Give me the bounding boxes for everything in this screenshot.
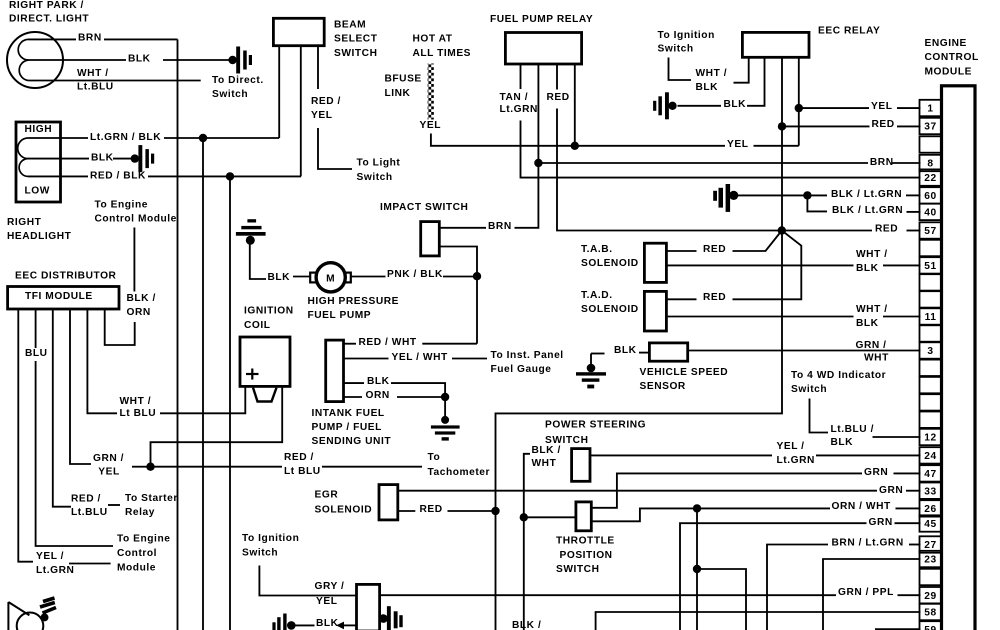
label THROTTLE POSITION SWITCH <box>556 535 615 575</box>
svg-text:SENSOR: SENSOR <box>640 381 686 392</box>
svg-text:FUEL PUMP RELAY: FUEL PUMP RELAY <box>490 14 593 25</box>
box TAD solenoid <box>644 291 666 331</box>
ground (chassis) right of ignition box <box>379 606 403 630</box>
wire ground to BLK label <box>591 353 605 355</box>
label FUEL PUMP RELAY <box>490 14 593 25</box>
wire TP upper to GRN pin47 <box>591 473 862 507</box>
wire to BLK/Lt.GRN label <box>807 194 827 196</box>
svg-text:BRN: BRN <box>870 157 894 168</box>
label BLK (sending unit) <box>367 376 390 387</box>
wire vertical bus from Lt.GRN/BLK dot <box>202 138 204 630</box>
svg-text:LOW: LOW <box>25 185 50 196</box>
svg-text:Module: Module <box>117 562 156 573</box>
wire TAD lower WHT/BLK to pin11 <box>666 316 853 318</box>
label YEL (mid) <box>727 139 748 150</box>
wire into pin45 <box>895 522 921 524</box>
wire EGR lower RED <box>398 510 416 512</box>
svg-text:57: 57 <box>924 226 936 237</box>
wire EEC relay pin3 long route <box>496 57 783 630</box>
ground (earth) intank <box>431 416 460 441</box>
svg-text:60: 60 <box>924 191 936 202</box>
wire from To Engine Control Module label down <box>133 228 135 292</box>
label RED / WHT <box>359 337 417 348</box>
wire TAB lower WHT/BLK to pin51 <box>666 264 853 266</box>
label To Light Switch <box>357 157 401 182</box>
label RED / Lt BLU (tach) <box>284 452 321 477</box>
svg-text:ENGINE: ENGINE <box>925 38 967 49</box>
plus symbol ignition coil <box>246 369 259 380</box>
svg-text:To Ignition: To Ignition <box>658 30 715 41</box>
horn symbol (bottom left) <box>8 598 56 630</box>
wire ORN to junction <box>397 396 445 398</box>
junction dot Lt.GRN/BLK <box>199 134 207 142</box>
label IGNITION COIL <box>244 306 294 331</box>
wire from ignition switch label <box>669 58 692 81</box>
svg-text:COIL: COIL <box>244 320 271 331</box>
svg-text:26: 26 <box>924 504 936 515</box>
label To Inst. Panel Fuel Gauge <box>491 350 564 375</box>
svg-text:TFI MODULE: TFI MODULE <box>25 291 93 302</box>
svg-text:RED: RED <box>703 244 726 255</box>
svg-text:CONTROL: CONTROL <box>925 52 979 63</box>
wire YEL to EEC relay <box>754 145 799 147</box>
svg-text:GRN /: GRN / <box>856 340 887 351</box>
ground (inverted earth) fuel pump BLK <box>236 219 266 279</box>
label RED (pin37) <box>872 119 895 130</box>
junction dot PNK/BLK <box>473 272 481 280</box>
wire TAB RED <box>666 250 696 252</box>
wire EGR upper to ECM pin33 <box>398 490 877 492</box>
svg-text:GRN /: GRN / <box>93 453 124 464</box>
svg-text:PUMP / FUEL: PUMP / FUEL <box>312 422 382 433</box>
svg-text:POWER STEERING: POWER STEERING <box>545 419 646 430</box>
label TFI MODULE <box>25 291 93 302</box>
junction dot pin57 node <box>778 226 786 234</box>
svg-text:WHT /: WHT / <box>120 396 152 407</box>
svg-text:To: To <box>428 452 441 463</box>
svg-text:IMPACT SWITCH: IMPACT SWITCH <box>380 202 468 213</box>
wire RED riser diagonal to node <box>733 231 802 300</box>
wire YEL/WHT <box>344 358 389 360</box>
box power steering switch <box>572 449 590 482</box>
svg-text:GRN: GRN <box>879 485 903 496</box>
svg-text:THROTTLE: THROTTLE <box>556 535 615 546</box>
svg-text:To Direct.: To Direct. <box>212 75 264 86</box>
svg-text:RED /: RED / <box>284 452 314 463</box>
svg-text:To 4 WD Indicator: To 4 WD Indicator <box>791 370 886 381</box>
wire label-link to Module <box>69 563 111 565</box>
ground (earth) VSS <box>576 354 606 389</box>
wire BRN into pin8 <box>892 162 921 164</box>
label BLK (EEC) <box>724 99 747 110</box>
label RED / YEL <box>311 96 341 121</box>
svg-text:BLK /: BLK / <box>532 445 561 456</box>
svg-text:To Starter: To Starter <box>125 493 178 504</box>
wire beam select pin1 to Lt.GRN/BLK <box>278 46 280 138</box>
label YEL / Lt.GRN (pin24) <box>777 441 815 466</box>
label BFUSE LINK <box>385 73 422 99</box>
wire RED/WHT <box>344 343 357 345</box>
svg-text:WHT: WHT <box>532 458 557 469</box>
label BLK (VSS) <box>614 345 637 356</box>
svg-text:RED: RED <box>872 119 895 130</box>
label GRN / YEL <box>93 453 124 478</box>
wire vertical bus from RED/BLK dot <box>229 176 231 630</box>
svg-text:HIGH: HIGH <box>25 124 53 135</box>
svg-text:INTANK FUEL: INTANK FUEL <box>312 408 385 419</box>
svg-text:RED /: RED / <box>71 494 101 505</box>
label BRN (pin8) <box>870 157 894 168</box>
svg-text:29: 29 <box>924 591 936 602</box>
wire YEL from fusible link <box>431 134 575 146</box>
svg-text:58: 58 <box>924 608 936 619</box>
wire BLK from bulb <box>29 59 127 61</box>
label GRN (pin33) <box>879 485 903 496</box>
label RED (pin57) <box>875 223 898 234</box>
wire BRN/Lt.GRN pin27 <box>767 545 828 630</box>
wire to earth ground <box>444 397 446 419</box>
label BLK (fuel pump) <box>268 272 291 283</box>
svg-text:MODULE: MODULE <box>925 66 972 77</box>
wire YEL/WHT to gauge <box>452 358 487 360</box>
label EGR SOLENOID <box>315 489 373 515</box>
svg-text:YEL: YEL <box>311 110 332 121</box>
svg-text:IGNITION: IGNITION <box>244 306 294 317</box>
wire WHT/BLK to EEC relay pin1 <box>734 57 749 82</box>
label BLK / WHT <box>532 445 561 469</box>
wire into pin29 <box>898 594 921 596</box>
wire BRN to ECM pin8 <box>538 162 868 164</box>
svg-text:BLK: BLK <box>696 82 719 93</box>
svg-text:51: 51 <box>924 261 936 272</box>
svg-text:Lt BLU: Lt BLU <box>120 408 157 419</box>
svg-text:BEAM: BEAM <box>334 19 366 30</box>
wire BLK to ground <box>163 59 229 61</box>
label BLK / Lt.GRN (pin60) <box>831 189 902 200</box>
ground (chassis) EEC relay BLK <box>653 92 677 119</box>
svg-text:45: 45 <box>924 519 936 530</box>
label To 4 WD Indicator Switch <box>791 370 886 395</box>
wire TFI pin2 lower to To Engine <box>36 361 113 546</box>
label BLK / Lt.GRN (pin40) <box>832 205 903 216</box>
svg-text:BRN: BRN <box>488 221 512 232</box>
label RED / BLK <box>90 170 146 181</box>
junction dot pin37 branch <box>778 122 786 130</box>
svg-text:12: 12 <box>924 433 936 444</box>
svg-text:Control Module: Control Module <box>95 213 177 224</box>
junction dot GRN/YEL <box>146 463 154 471</box>
wire WHT/Lt BLU to coil <box>160 386 245 413</box>
svg-text:BLK: BLK <box>614 345 637 356</box>
label To Tachometer <box>428 452 491 478</box>
wire GRN/YEL to junction <box>132 466 148 468</box>
svg-text:Lt.GRN: Lt.GRN <box>500 104 538 115</box>
ground (chassis) pins 60/40 <box>713 184 738 212</box>
wire pin59 stub <box>875 628 921 630</box>
svg-text:BLK / Lt.GRN: BLK / Lt.GRN <box>831 189 902 200</box>
svg-text:YEL: YEL <box>727 139 748 150</box>
wire junction riser to ignition coil <box>151 386 283 466</box>
svg-text:To Light: To Light <box>357 157 401 168</box>
label RED (TAD) <box>703 292 726 303</box>
svg-text:RED: RED <box>875 223 898 234</box>
wire 4WD to Lt.BLU/BLK <box>810 399 829 433</box>
wire to tachometer <box>322 466 422 468</box>
svg-text:BLK: BLK <box>128 53 151 64</box>
label BLK / ORN <box>127 293 156 318</box>
svg-text:ORN / WHT: ORN / WHT <box>832 501 892 512</box>
svg-text:BLK: BLK <box>91 153 114 164</box>
svg-text:HOT AT: HOT AT <box>413 33 453 44</box>
label IMPACT SWITCH <box>380 202 468 213</box>
svg-text:ORN: ORN <box>366 390 390 401</box>
wire TP feed <box>524 516 576 518</box>
junction dot BLK/ORN ground <box>441 393 449 401</box>
wire TFI pin5 WHT/Lt BLU <box>87 309 117 413</box>
label T.A.D. SOLENOID <box>581 290 639 315</box>
label To Starter Relay <box>125 493 178 518</box>
wire Lt.GRN/BLK from headlight <box>61 137 89 139</box>
svg-text:WHT /: WHT / <box>856 304 888 315</box>
label RED (FP relay) <box>547 92 570 103</box>
label: RIGHT PARK / DIRECT. LIGHT <box>9 0 89 24</box>
label HIGH PRESSURE FUEL PUMP <box>308 296 400 321</box>
box EGR solenoid <box>379 485 398 520</box>
svg-text:WHT: WHT <box>864 352 889 363</box>
wire TFI pin3 RED/Lt.BLU <box>53 309 71 507</box>
label GRN / PPL (pin29) <box>838 587 894 598</box>
wire into pin47 <box>894 472 921 474</box>
label POWER STEERING SWITCH <box>545 419 646 445</box>
svg-text:Switch: Switch <box>357 172 393 183</box>
svg-text:RED: RED <box>547 92 570 103</box>
svg-text:YEL: YEL <box>316 596 337 607</box>
svg-text:Lt.GRN: Lt.GRN <box>36 565 74 576</box>
label BLK / (cut) <box>512 620 541 630</box>
svg-text:RED: RED <box>420 504 443 515</box>
label GRY / YEL <box>315 581 345 607</box>
wire pin58 <box>596 612 921 630</box>
wire PNK/BLK from motor <box>351 276 386 278</box>
label BLK <box>128 53 151 64</box>
box fuel pump relay <box>505 33 581 65</box>
wire label-link to starter relay <box>108 504 120 506</box>
svg-text:DIRECT. LIGHT: DIRECT. LIGHT <box>9 13 89 24</box>
svg-text:BLK: BLK <box>367 376 390 387</box>
box ignition coil <box>240 337 290 386</box>
label BRN (impact) <box>488 221 512 232</box>
label ORN <box>366 390 390 401</box>
label BRN / Lt.GRN (pin27) <box>832 538 904 549</box>
svg-text:RED / BLK: RED / BLK <box>90 170 146 181</box>
box impact switch <box>421 222 440 256</box>
label RED (TAB) <box>703 244 726 255</box>
label RED (EGR) <box>420 504 443 515</box>
wire TFI pin1 YEL/Lt.GRN <box>18 309 33 562</box>
wire Lt.GRN/BLK to beam select <box>164 137 279 139</box>
svg-text:YEL: YEL <box>871 101 892 112</box>
wire ground to junction <box>738 194 804 196</box>
wire GRN into pin33 <box>906 490 921 492</box>
wire BLK arrow to box <box>336 622 357 630</box>
motor high pressure fuel pump <box>310 263 351 292</box>
svg-text:T.A.B.: T.A.B. <box>581 244 613 255</box>
svg-text:Control: Control <box>117 548 157 559</box>
fusible link (hatched) <box>428 64 434 120</box>
wire vertical bus from BRN corner <box>177 39 179 630</box>
ground (chassis) headlight BLK <box>131 145 155 172</box>
svg-text:SELECT: SELECT <box>334 33 378 44</box>
wire BRN from bulb <box>51 38 76 40</box>
wire branch down from ORN/WHT <box>696 508 698 630</box>
svg-text:Lt.BLU: Lt.BLU <box>77 82 114 93</box>
ground (chassis) at To Direct Switch <box>228 47 252 74</box>
label WHT / BLK (pin51) <box>856 249 888 274</box>
svg-text:Fuel Gauge: Fuel Gauge <box>491 364 552 375</box>
label INTANK FUEL PUMP / FUEL SENDING UNIT <box>312 408 392 447</box>
wire RED into pin37 <box>897 125 921 127</box>
svg-text:BLU: BLU <box>25 348 48 359</box>
wire BLK to ground <box>113 158 131 160</box>
wire BLK sending unit <box>344 382 365 384</box>
svg-text:LINK: LINK <box>385 88 411 99</box>
svg-text:Lt.GRN: Lt.GRN <box>777 455 815 466</box>
wire EEC relay pin2 <box>747 57 765 106</box>
wire FP relay pin3 lower to pin57 node <box>557 109 782 231</box>
ECM pin boxes column <box>920 100 942 630</box>
svg-text:RED / WHT: RED / WHT <box>359 337 417 348</box>
box beam select switch <box>273 18 324 45</box>
svg-text:YEL /: YEL / <box>36 551 64 562</box>
svg-text:EGR: EGR <box>315 489 339 500</box>
label WHT / Lt BLU <box>120 396 157 419</box>
svg-text:SOLENOID: SOLENOID <box>581 304 639 315</box>
svg-text:BRN / Lt.GRN: BRN / Lt.GRN <box>832 538 904 549</box>
wire BLK to ground riser <box>391 383 445 397</box>
svg-text:TAN /: TAN / <box>500 92 529 103</box>
wire FP relay pin3 upper <box>556 64 558 90</box>
wire BLK/WHT bracket <box>524 454 530 630</box>
svg-text:SOLENOID: SOLENOID <box>315 504 373 515</box>
box engine control module <box>942 86 976 630</box>
svg-text:24: 24 <box>924 451 936 462</box>
label ENGINE CONTROL MODULE <box>925 38 979 77</box>
svg-text:Lt.GRN / BLK: Lt.GRN / BLK <box>90 132 161 143</box>
svg-text:BLK: BLK <box>316 618 339 629</box>
wire FP relay pin1 upper <box>520 64 522 89</box>
label RED / Lt.BLU <box>71 494 108 519</box>
wire GRN pin45 <box>680 523 867 630</box>
svg-text:To Engine: To Engine <box>95 199 148 210</box>
label HIGH <box>25 124 53 135</box>
svg-text:ORN: ORN <box>127 307 151 318</box>
box EEC relay <box>742 32 809 57</box>
svg-text:BFUSE: BFUSE <box>385 73 422 84</box>
wire YEL into pin1 <box>897 107 921 109</box>
wire BLK to VSS box <box>639 352 649 354</box>
svg-text:33: 33 <box>924 486 936 497</box>
wire FP relay pin1 lower to ECM pin22 <box>521 121 921 178</box>
coil tower <box>253 388 277 402</box>
wire BLK to ground <box>678 105 722 107</box>
wire WHT/Lt.BLU from bulb <box>55 80 201 82</box>
label HOT AT ALL TIMES <box>413 33 472 58</box>
svg-text:T.A.D.: T.A.D. <box>581 290 613 301</box>
junction dot pin1 YEL branch <box>795 104 803 112</box>
svg-text:Switch: Switch <box>242 547 278 558</box>
svg-text:BLK / Lt.GRN: BLK / Lt.GRN <box>832 205 903 216</box>
svg-text:BLK: BLK <box>856 263 879 274</box>
label TAN / Lt.GRN <box>500 92 538 115</box>
label BLK (ignition) <box>316 618 339 629</box>
svg-text:59: 59 <box>924 625 936 630</box>
box intank fuel pump / sending unit <box>326 340 344 402</box>
label YEL / Lt.GRN <box>36 551 74 576</box>
svg-text:GRN: GRN <box>864 467 888 478</box>
junction dot EGR RED <box>491 507 499 515</box>
svg-text:23: 23 <box>924 555 936 566</box>
box vehicle speed sensor <box>649 343 687 361</box>
wire beam select pin3 lower to light switch <box>318 128 352 169</box>
wire into pin27 <box>909 544 921 546</box>
wire BLK from headlight <box>61 158 90 160</box>
svg-text:Lt.BLU /: Lt.BLU / <box>831 424 874 435</box>
svg-text:3: 3 <box>927 346 933 357</box>
wire BRN to vertical <box>104 38 178 40</box>
svg-text:Switch: Switch <box>791 384 827 395</box>
label PNK / BLK <box>387 269 443 280</box>
wire EEC relay pin4 <box>798 57 800 146</box>
svg-text:YEL: YEL <box>98 467 119 478</box>
svg-text:EEC DISTRIBUTOR: EEC DISTRIBUTOR <box>15 271 117 282</box>
wire BLK to motor <box>293 276 311 278</box>
wire impact switch lower to PNK/BLK node <box>439 247 477 277</box>
svg-text:POSITION: POSITION <box>560 550 613 561</box>
svg-text:PNK / BLK: PNK / BLK <box>387 269 443 280</box>
label To Direct. Switch <box>212 75 264 100</box>
wire into pin24 <box>816 454 921 456</box>
svg-text:SOLENOID: SOLENOID <box>581 258 639 269</box>
svg-text:To Ignition: To Ignition <box>242 533 299 544</box>
label GRN / WHT (pin3) <box>856 340 890 364</box>
svg-text:BLK /: BLK / <box>512 620 541 630</box>
label YEL (pin1) <box>871 101 892 112</box>
label WHT / BLK (pin11) <box>856 304 888 329</box>
svg-text:RED: RED <box>703 292 726 303</box>
svg-text:M: M <box>326 274 335 285</box>
svg-text:Lt.BLU: Lt.BLU <box>71 507 108 518</box>
svg-text:22: 22 <box>924 173 936 184</box>
svg-text:SWITCH: SWITCH <box>556 564 599 575</box>
wire PS switch to YEL/Lt.GRN <box>590 454 772 456</box>
svg-text:HEADLIGHT: HEADLIGHT <box>7 231 72 242</box>
ground (chassis) left of ignition box <box>272 614 295 630</box>
wire into pin60 <box>906 194 921 196</box>
svg-text:BLK: BLK <box>831 437 854 448</box>
svg-text:YEL /: YEL / <box>777 441 805 452</box>
label WHT / BLK (EEC) <box>696 68 728 93</box>
wire PNK/BLK to dot <box>443 276 477 278</box>
label To Ignition Switch (bottom) <box>242 533 299 558</box>
wire ORN <box>344 396 363 398</box>
wire branch to pin40 <box>807 195 827 211</box>
wire YEL to ECM pin1 <box>799 107 869 109</box>
label WHT / Lt.BLU <box>77 68 114 93</box>
svg-text:HIGH PRESSURE: HIGH PRESSURE <box>308 296 400 307</box>
label Lt.BLU / BLK (pin12) <box>831 424 874 448</box>
svg-text:40: 40 <box>924 208 936 219</box>
wire TFI pin4 GRN/YEL <box>70 309 91 464</box>
